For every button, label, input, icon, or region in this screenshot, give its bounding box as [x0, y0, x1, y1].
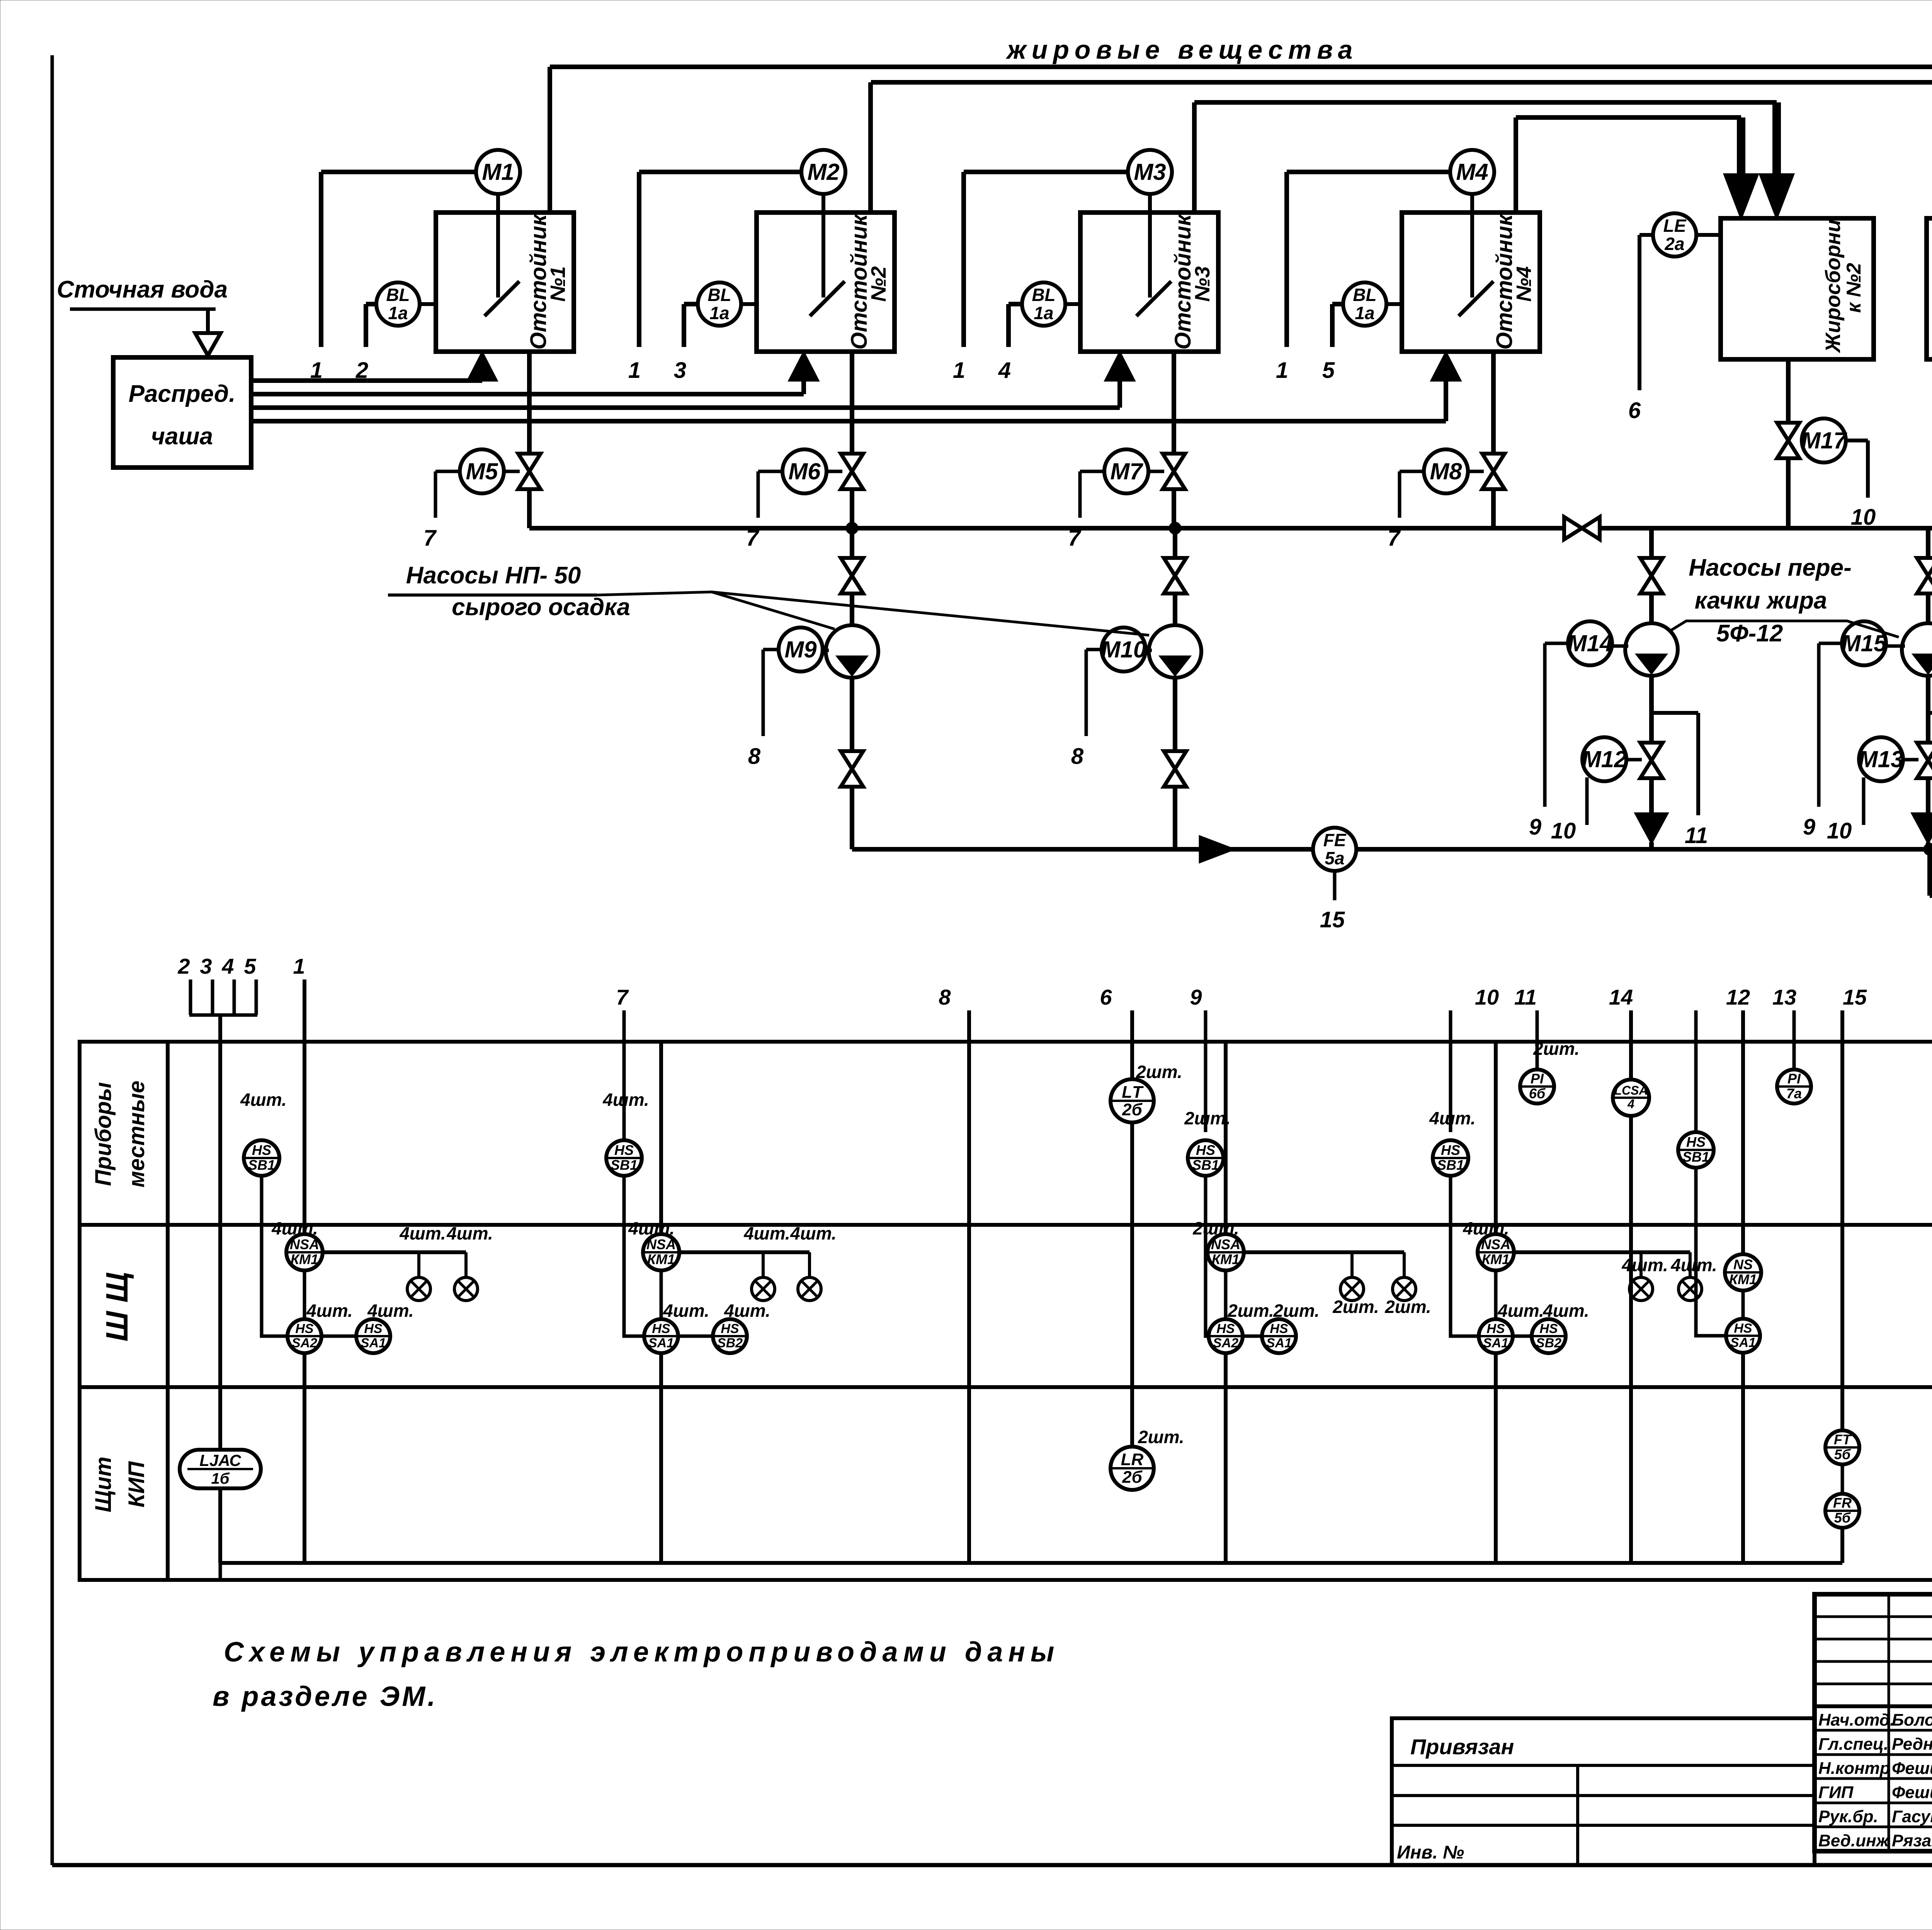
- svg-text:3: 3: [674, 358, 686, 383]
- svg-text:НS: НS: [1216, 1321, 1235, 1336]
- svg-text:Гл.спец.: Гл.спец.: [1818, 1735, 1888, 1754]
- svg-text:НS: НS: [1270, 1321, 1288, 1336]
- svg-text:Н.контр: Н.контр: [1818, 1759, 1890, 1778]
- svg-text:4шт.: 4шт.: [1543, 1301, 1589, 1321]
- svg-text:РI: РI: [1531, 1071, 1544, 1087]
- svg-text:Насосы НП- 50: Насосы НП- 50: [406, 562, 581, 589]
- svg-text:5a: 5a: [1325, 848, 1344, 868]
- svg-text:сырого осадка: сырого осадка: [452, 594, 630, 621]
- svg-text:BL: BL: [1032, 285, 1055, 305]
- svg-text:2шт.: 2шт.: [1384, 1297, 1431, 1317]
- svg-text:Рязанова: Рязанова: [1892, 1831, 1932, 1850]
- svg-text:1a: 1a: [709, 303, 729, 323]
- svg-text:М8: М8: [1430, 458, 1462, 484]
- svg-text:4шт.: 4шт.: [724, 1301, 770, 1321]
- svg-text:LR: LR: [1121, 1450, 1144, 1469]
- svg-text:Распред.: Распред.: [129, 381, 236, 407]
- svg-text:КМ1: КМ1: [291, 1252, 318, 1267]
- svg-text:М15: М15: [1842, 630, 1887, 656]
- svg-text:2шт.: 2шт.: [1184, 1108, 1231, 1128]
- svg-text:SA1: SA1: [1266, 1336, 1292, 1350]
- svg-text:1: 1: [628, 358, 641, 383]
- svg-text:9: 9: [1190, 985, 1202, 1009]
- svg-text:12: 12: [1726, 985, 1750, 1009]
- svg-text:Вед.инж: Вед.инж: [1818, 1831, 1890, 1850]
- svg-text:4шт.: 4шт.: [446, 1223, 493, 1243]
- svg-text:М5: М5: [466, 458, 498, 484]
- svg-text:Болотов: Болотов: [1892, 1711, 1932, 1729]
- svg-text:5: 5: [244, 954, 256, 978]
- svg-text:SB2: SB2: [1536, 1336, 1561, 1350]
- svg-text:5б: 5б: [1834, 1447, 1851, 1462]
- svg-text:15: 15: [1320, 907, 1345, 932]
- svg-text:4шт.: 4шт.: [1670, 1255, 1717, 1275]
- svg-text:Приборы: Приборы: [91, 1082, 116, 1186]
- svg-text:4шт.: 4шт.: [240, 1090, 287, 1110]
- svg-text:4шт.: 4шт.: [743, 1223, 790, 1243]
- svg-text:LТ: LТ: [1122, 1083, 1144, 1102]
- svg-text:11: 11: [1514, 985, 1537, 1009]
- svg-text:4шт.: 4шт.: [663, 1301, 709, 1321]
- svg-text:КМ1: КМ1: [1729, 1272, 1757, 1287]
- svg-text:4шт.: 4шт.: [1463, 1218, 1509, 1238]
- svg-text:1: 1: [293, 954, 305, 978]
- svg-text:КИП: КИП: [124, 1461, 149, 1507]
- svg-text:НS: НS: [364, 1321, 383, 1336]
- svg-text:качки жира: качки жира: [1695, 587, 1827, 614]
- svg-text:местные: местные: [124, 1081, 149, 1188]
- svg-text:М10: М10: [1101, 636, 1146, 662]
- svg-text:NSА: NSА: [646, 1236, 676, 1252]
- svg-text:НS: НS: [721, 1321, 739, 1336]
- svg-text:8: 8: [748, 744, 761, 769]
- svg-text:15: 15: [1843, 985, 1867, 1009]
- svg-text:4: 4: [221, 954, 234, 978]
- svg-text:1a: 1a: [1034, 303, 1053, 323]
- svg-text:2a: 2a: [1664, 234, 1684, 254]
- svg-text:8: 8: [1071, 744, 1084, 769]
- svg-text:11: 11: [1685, 823, 1708, 848]
- svg-text:SA1: SA1: [361, 1336, 386, 1350]
- svg-text:2: 2: [177, 954, 190, 978]
- svg-text:Инв. №: Инв. №: [1397, 1842, 1464, 1863]
- svg-text:NSА: NSА: [290, 1236, 319, 1252]
- svg-text:7а: 7а: [1786, 1086, 1802, 1102]
- svg-text:Нач.отд.: Нач.отд.: [1818, 1711, 1895, 1729]
- svg-text:5Ф-12: 5Ф-12: [1716, 620, 1783, 647]
- svg-text:М7: М7: [1110, 458, 1143, 484]
- svg-text:1б: 1б: [211, 1470, 230, 1487]
- svg-text:4: 4: [998, 358, 1011, 383]
- svg-text:Ш Щ: Ш Щ: [100, 1272, 134, 1342]
- svg-text:6: 6: [1100, 985, 1112, 1009]
- svg-text:к №2: к №2: [1843, 263, 1865, 313]
- svg-text:SB1: SB1: [1682, 1149, 1709, 1165]
- svg-text:Рук.бр.: Рук.бр.: [1818, 1807, 1878, 1826]
- svg-text:NS: NS: [1733, 1257, 1753, 1272]
- svg-text:NSА: NSА: [1211, 1236, 1240, 1252]
- svg-text:FE: FE: [1323, 830, 1347, 850]
- svg-text:в разделе ЭМ.: в разделе ЭМ.: [213, 1681, 437, 1712]
- svg-text:№1: №1: [546, 266, 570, 302]
- svg-text:КМ1: КМ1: [1482, 1252, 1510, 1267]
- svg-text:ГИП: ГИП: [1818, 1783, 1854, 1802]
- svg-text:SB2: SB2: [717, 1336, 743, 1350]
- svg-text:5: 5: [1322, 358, 1335, 383]
- svg-text:М3: М3: [1134, 159, 1166, 185]
- svg-text:НS: НS: [1686, 1134, 1706, 1150]
- svg-text:SB1: SB1: [1192, 1157, 1219, 1173]
- svg-text:3: 3: [200, 954, 212, 978]
- svg-text:2шт.: 2шт.: [1533, 1039, 1580, 1059]
- svg-text:Схемы управления электроп: Схемы управления электроприводами даны: [224, 1637, 1060, 1668]
- svg-text:SB1: SB1: [248, 1157, 275, 1173]
- svg-text:жировые вещества: жировые вещества: [1005, 35, 1358, 65]
- svg-text:Щит: Щит: [91, 1457, 116, 1512]
- svg-text:4шт.: 4шт.: [1497, 1301, 1544, 1321]
- svg-text:13: 13: [1772, 985, 1796, 1009]
- svg-text:НS: НS: [1734, 1321, 1752, 1336]
- svg-text:НS: НS: [1486, 1321, 1505, 1336]
- svg-text:1a: 1a: [1355, 303, 1374, 323]
- svg-text:1: 1: [1276, 358, 1288, 383]
- svg-text:№3: №3: [1191, 266, 1214, 302]
- svg-text:SB1: SB1: [611, 1157, 638, 1173]
- svg-text:НS: НS: [614, 1142, 634, 1158]
- svg-text:LJАС: LJАС: [199, 1451, 241, 1469]
- svg-text:М2: М2: [807, 159, 839, 185]
- svg-text:9: 9: [1803, 815, 1815, 840]
- svg-text:BL: BL: [1353, 285, 1376, 305]
- svg-text:РI: РI: [1787, 1071, 1801, 1087]
- svg-text:2шт.: 2шт.: [1332, 1297, 1379, 1317]
- svg-text:SA1: SA1: [648, 1336, 674, 1350]
- svg-text:5б: 5б: [1834, 1510, 1851, 1526]
- svg-text:№4: №4: [1512, 266, 1536, 302]
- svg-text:4шт.: 4шт.: [1429, 1108, 1476, 1128]
- svg-text:Фешин: Фешин: [1892, 1783, 1932, 1802]
- svg-text:№2: №2: [867, 266, 890, 302]
- svg-text:М1: М1: [482, 159, 514, 185]
- svg-text:FR: FR: [1833, 1495, 1852, 1511]
- svg-text:4шт.: 4шт.: [628, 1218, 675, 1238]
- svg-text:М13: М13: [1859, 746, 1904, 772]
- svg-text:4шт.: 4шт.: [602, 1090, 649, 1110]
- svg-text:НS: НS: [252, 1142, 271, 1158]
- svg-text:Редникин: Редникин: [1892, 1735, 1932, 1754]
- svg-text:10: 10: [1827, 818, 1852, 843]
- svg-text:4шт.: 4шт.: [399, 1223, 446, 1243]
- svg-text:Насосы пере-: Насосы пере-: [1689, 554, 1852, 581]
- svg-text:М9: М9: [784, 636, 817, 662]
- svg-text:1a: 1a: [388, 303, 408, 323]
- svg-text:2шт.: 2шт.: [1192, 1218, 1239, 1238]
- svg-text:4шт.: 4шт.: [306, 1301, 353, 1321]
- svg-text:LE: LE: [1663, 216, 1687, 236]
- svg-text:SA2: SA2: [292, 1336, 317, 1350]
- svg-text:2б: 2б: [1122, 1100, 1143, 1119]
- svg-text:BL: BL: [386, 285, 410, 305]
- svg-text:КМ1: КМ1: [1212, 1252, 1240, 1267]
- svg-text:НS: НS: [1539, 1321, 1558, 1336]
- svg-text:6б: 6б: [1529, 1086, 1546, 1102]
- svg-text:4шт.: 4шт.: [790, 1223, 837, 1243]
- svg-text:НS: НS: [1196, 1142, 1215, 1158]
- svg-text:Фешин: Фешин: [1892, 1759, 1932, 1778]
- svg-text:М17: М17: [1801, 427, 1847, 453]
- svg-text:2шт.: 2шт.: [1273, 1301, 1320, 1321]
- svg-text:М14: М14: [1568, 630, 1613, 656]
- svg-text:BL: BL: [707, 285, 731, 305]
- svg-text:чаша: чаша: [151, 423, 213, 450]
- svg-text:10: 10: [1475, 985, 1499, 1009]
- svg-text:2шт.: 2шт.: [1136, 1062, 1182, 1082]
- svg-text:7: 7: [616, 985, 629, 1009]
- svg-text:LСSА: LСSА: [1614, 1083, 1648, 1097]
- svg-text:2шт.: 2шт.: [1138, 1427, 1184, 1447]
- svg-text:SB1: SB1: [1437, 1157, 1464, 1173]
- svg-text:8: 8: [939, 985, 951, 1009]
- svg-text:М6: М6: [788, 458, 821, 484]
- svg-text:НS: НS: [652, 1321, 670, 1336]
- svg-text:4шт.: 4шт.: [1621, 1255, 1668, 1275]
- svg-text:НS: НS: [295, 1321, 314, 1336]
- svg-text:Гасумянц: Гасумянц: [1892, 1807, 1932, 1826]
- svg-text:SA1: SA1: [1730, 1335, 1756, 1350]
- svg-text:14: 14: [1609, 985, 1633, 1009]
- svg-text:Жиросборни: Жиросборни: [1821, 219, 1845, 354]
- svg-text:7: 7: [423, 525, 437, 551]
- svg-text:4шт.: 4шт.: [367, 1301, 414, 1321]
- svg-text:Сточная вода: Сточная вода: [57, 276, 228, 303]
- svg-text:4: 4: [1627, 1097, 1634, 1111]
- svg-text:М12: М12: [1582, 746, 1627, 772]
- svg-text:М4: М4: [1456, 159, 1488, 185]
- svg-text:НS: НS: [1441, 1142, 1460, 1158]
- svg-text:2шт.: 2шт.: [1227, 1301, 1274, 1321]
- svg-text:10: 10: [1551, 818, 1576, 843]
- svg-text:КМ1: КМ1: [647, 1252, 675, 1267]
- svg-text:1: 1: [953, 358, 965, 383]
- svg-text:FТ: FТ: [1834, 1432, 1852, 1447]
- svg-text:NSА: NSА: [1481, 1236, 1510, 1252]
- svg-text:SA1: SA1: [1483, 1336, 1509, 1350]
- svg-text:SA2: SA2: [1213, 1336, 1238, 1350]
- svg-text:9: 9: [1529, 815, 1541, 840]
- svg-text:2б: 2б: [1122, 1467, 1143, 1486]
- svg-text:6: 6: [1628, 398, 1641, 423]
- svg-text:Привязан: Привязан: [1410, 1734, 1514, 1759]
- svg-text:4шт.: 4шт.: [271, 1218, 318, 1238]
